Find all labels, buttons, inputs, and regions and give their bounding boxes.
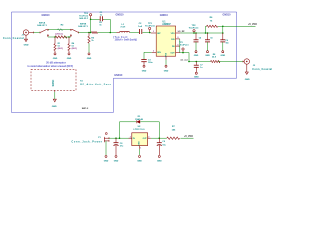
ground under C8 — [114, 155, 119, 162]
wire U2 GND pin — [139, 149, 141, 155]
svg-text:VNS: VNS — [166, 52, 168, 57]
resistor R7 145 — [167, 126, 180, 139]
svg-text:+5_VCC: +5_VCC — [184, 135, 193, 138]
svg-text:100n: 100n — [148, 62, 153, 64]
svg-text:GND: GND — [164, 71, 169, 73]
svg-text:+5_VCC: +5_VCC — [248, 23, 257, 26]
wire R3b to C1 node — [98, 32, 111, 34]
ground under C9 — [157, 155, 162, 162]
svg-text:7mH: 7mH — [120, 27, 125, 29]
wire output row — [189, 61, 211, 63]
testpoint TP3 — [179, 42, 189, 54]
wire J1 to SW1A — [34, 32, 41, 34]
svg-text:GND: GND — [157, 161, 162, 163]
svg-text:GND10: GND10 — [116, 13, 125, 16]
inductor L1 150u — [117, 24, 130, 33]
wire attenuator input row — [48, 36, 55, 38]
svg-text:6: 6 — [178, 44, 179, 46]
svg-text:1: 1 — [140, 147, 141, 149]
svg-text:TestPoint: TestPoint — [145, 25, 155, 28]
svg-text:GND: GND — [194, 76, 199, 78]
ground under relay coil — [52, 99, 57, 108]
svg-text:AD8007: AD8007 — [162, 23, 171, 26]
svg-text:GND: GND — [104, 161, 109, 163]
node junction right — [68, 36, 70, 38]
wire U2 out row — [151, 137, 167, 139]
svg-text:(Top Coil;: (Top Coil; — [113, 36, 128, 39]
svg-text:SW1A: SW1A — [39, 22, 46, 25]
ground under C7 — [194, 72, 199, 78]
capacitor C5 bypass — [205, 32, 213, 50]
svg-text:to avoid attenuation when unus: to avoid attenuation when unused (OFF) — [28, 65, 74, 68]
relay coil SW1C dashed box — [31, 69, 76, 92]
node junction left — [54, 36, 56, 38]
testpoint TP1 — [145, 23, 155, 33]
wire +5_VCC exit top right — [223, 25, 256, 27]
ground under C4 — [194, 51, 199, 57]
svg-text:(68.1): (68.1) — [72, 48, 78, 50]
svg-text:INN: INN — [157, 52, 161, 54]
wire SW1B to R5 node — [79, 32, 92, 34]
diode D1 1N4148 bypass loop — [119, 116, 160, 139]
wire L1 to C2 — [130, 32, 140, 34]
wire C2 to TP1 to U1 — [142, 32, 150, 34]
svg-text:[291.5]: [291.5] — [56, 33, 63, 35]
svg-text:3: 3 — [130, 136, 131, 138]
wire P1 to U2 input row — [109, 137, 132, 139]
svg-text:GND: GND — [139, 141, 141, 146]
pin VPS — [176, 32, 181, 34]
pin INP — [151, 32, 157, 34]
svg-text:GND: GND — [194, 55, 199, 57]
wire U1 OUT down to output row — [180, 53, 189, 62]
ground under C5 — [205, 51, 210, 57]
svg-text:+5_RF: +5_RF — [178, 31, 185, 33]
svg-text:GND: GND — [87, 58, 92, 60]
svg-text:SW1.2: SW1.2 — [82, 108, 89, 110]
resistor R4 shunt right 61.9 — [68, 37, 77, 53]
capacitor C1 1n — [99, 12, 103, 21]
resistor R6 75 — [205, 17, 223, 34]
shield outline blue polygon — [12, 12, 237, 113]
svg-text:GND10: GND10 — [42, 14, 51, 17]
svg-text:G6K-2F-Y: G6K-2F-Y — [37, 25, 48, 27]
svg-text:GND10: GND10 — [223, 14, 232, 17]
ground under C3 — [142, 65, 147, 72]
svg-text:2: 2 — [148, 136, 149, 138]
wire C1 branch right — [104, 18, 111, 20]
resistor R3 [291.5] series attenuator — [55, 33, 67, 38]
wire R7 to +5_VCC label — [180, 137, 193, 139]
ground under J2 — [245, 64, 250, 81]
ground under J1 — [24, 35, 29, 46]
ground under C6 — [220, 51, 225, 57]
svg-text:G6K-2F-Y: G6K-2F-Y — [78, 26, 89, 28]
wire node to L1 — [110, 32, 116, 34]
wire DIS tied down to OUT — [179, 39, 181, 53]
regulator U2 LT1117-5.0 — [129, 126, 151, 149]
op-amp U1 AD8007 — [151, 21, 181, 59]
svg-text:VPS: VPS — [171, 33, 176, 35]
resistor R8 24.9 output series — [211, 54, 220, 63]
svg-text:att_out: att_out — [180, 59, 188, 62]
resistor R3b series (parallel with C1) — [92, 22, 103, 33]
capacitor C7 1n shunt — [194, 62, 204, 73]
ground under U1 — [164, 65, 169, 72]
svg-text:RF_Attn.Unit_Face: RF_Attn.Unit_Face — [80, 83, 111, 86]
wire VPS supply rail — [180, 32, 223, 34]
svg-text:GND: GND — [245, 79, 250, 81]
resistor R2 (small, bypass path) — [58, 29, 63, 31]
resistor R1 shunt left 61.9 — [54, 37, 63, 53]
relay switch SW1A G6K-2F-Y — [37, 22, 48, 37]
wire R8 to J2 — [218, 61, 243, 63]
svg-text:GND: GND — [24, 45, 29, 47]
capacitor C6 10n bypass — [220, 32, 229, 50]
capacitor C3 100n — [141, 59, 153, 65]
connector P1 Conn_Jack_Power — [72, 133, 110, 144]
capacitor C9 10u output — [157, 138, 167, 155]
wire INN feedback branch — [144, 52, 152, 59]
svg-text:Conn_Coaxial: Conn_Coaxial — [252, 68, 272, 71]
capacitor C8 27u input — [114, 137, 125, 155]
wire P1 pin2 to ground — [105, 141, 107, 155]
pin FB — [176, 45, 180, 47]
svg-text:GND: GND — [205, 55, 210, 57]
ground under R5 — [87, 53, 92, 60]
wire relay coil pin — [54, 92, 56, 99]
pin DIS — [176, 38, 180, 40]
svg-text:150uH + 5mH (both)): 150uH + 5mH (both)) — [115, 39, 138, 42]
wire bypass path (upper) — [48, 29, 70, 31]
resistor R5 shunt (after SW1B) — [88, 32, 95, 53]
connector J2 Conn_Coaxial — [243, 59, 272, 71]
ground under R1 — [53, 53, 58, 60]
ground under U2 — [137, 155, 142, 162]
svg-text:Conn_Jack_Power: Conn_Jack_Power — [72, 141, 103, 143]
wire C1 branch left — [90, 32, 92, 34]
relay switch SW1B G6K-2F-Y — [70, 24, 88, 37]
wire to right shunt node — [64, 36, 71, 38]
connector J1 Conn_Coaxial — [3, 30, 34, 40]
wire U1 VNS to ground — [165, 60, 167, 65]
svg-text:3: 3 — [153, 31, 154, 33]
svg-text:TestPoint: TestPoint — [180, 43, 189, 46]
pin INN — [152, 51, 157, 53]
svg-text:TestPoint: TestPoint — [189, 27, 199, 30]
capacitor C2 1n4 — [138, 23, 143, 34]
svg-text:GND: GND — [114, 161, 119, 163]
svg-text:8: 8 — [178, 37, 179, 39]
ground under R4 — [67, 53, 72, 60]
svg-text:C5: C5 — [210, 38, 212, 40]
svg-text:GND: GND — [137, 161, 142, 163]
svg-text:Conn_Coaxial: Conn_Coaxial — [3, 37, 24, 40]
svg-text:GND: GND — [67, 58, 72, 60]
capacitor C4 58n bypass — [194, 32, 203, 50]
svg-text:2: 2 — [153, 51, 154, 53]
svg-text:GND: GND — [53, 58, 58, 60]
ground under P1 — [104, 155, 109, 162]
svg-text:GND10: GND10 — [114, 74, 123, 77]
wire rail corner up to +5 line — [222, 26, 224, 33]
svg-text:SW1C: SW1C — [53, 79, 55, 86]
pin VNS (bottom) — [165, 56, 167, 59]
testpoint TP2 — [189, 25, 199, 34]
pin OUT — [176, 52, 180, 54]
svg-text:(68.1): (68.1) — [58, 48, 64, 50]
testpoint TP4 — [79, 12, 92, 20]
svg-text:20 dB attenuator: 20 dB attenuator — [46, 61, 66, 64]
svg-text:GND: GND — [142, 71, 147, 73]
svg-text:GND: GND — [52, 106, 57, 108]
svg-text:GND10: GND10 — [160, 14, 169, 17]
svg-text:LT1117-5.0: LT1117-5.0 — [134, 129, 146, 131]
svg-text:G6K-2F-Y: G6K-2F-Y — [79, 18, 89, 20]
svg-text:GND: GND — [220, 55, 225, 57]
